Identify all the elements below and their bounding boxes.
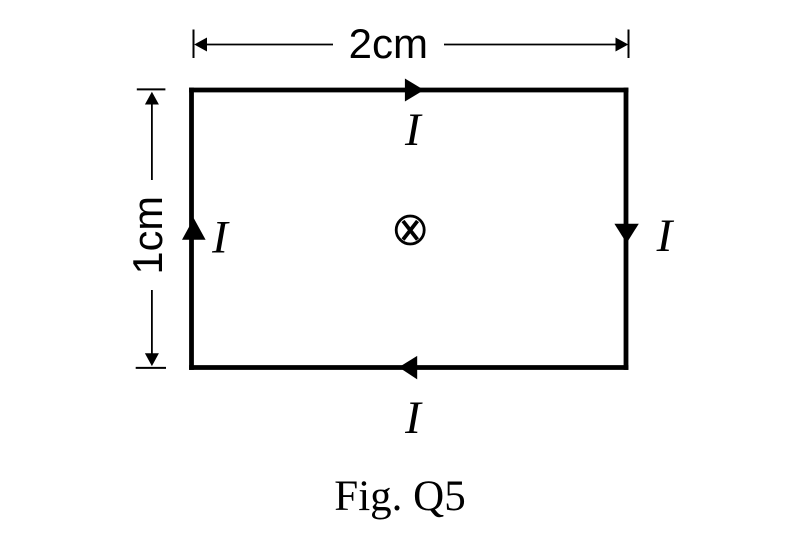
current arrow on left edge (pointing up) — [182, 218, 206, 239]
dimension arrowhead down (1cm) — [145, 353, 159, 366]
magnetic field into page symbol: X stroke 1 — [403, 221, 418, 240]
dimension extension tick left (top dimension 2cm) — [193, 30, 195, 59]
svg-text:I: I — [656, 210, 675, 262]
magnetic field into page symbol: circle — [396, 216, 424, 244]
magnetic field into page symbol: X stroke 2 — [403, 221, 418, 240]
svg-text:I: I — [211, 212, 230, 264]
wire right edge of loop — [624, 90, 629, 368]
current arrow on top edge (pointing right) — [405, 79, 424, 102]
current arrow on right edge (pointing down) — [614, 224, 638, 243]
dimension extension tick bottom (left dimension 1cm) — [136, 367, 166, 369]
dimension arrowhead up (1cm) — [145, 92, 159, 105]
dimension extension tick top (left dimension 1cm) — [137, 88, 166, 90]
dimension line left segment (2cm) — [206, 44, 333, 46]
svg-text:2cm: 2cm — [349, 20, 428, 67]
dimension arrowhead right (2cm) — [616, 38, 629, 52]
wire top edge of loop — [192, 88, 627, 93]
svg-text:Fig. Q5: Fig. Q5 — [334, 473, 465, 520]
dimension extension tick right (top dimension 2cm) — [628, 30, 630, 59]
svg-text:I: I — [404, 392, 423, 444]
current arrow on bottom edge (pointing left) — [399, 356, 417, 380]
dimension line upper segment (1cm) — [151, 104, 153, 180]
svg-text:I: I — [404, 104, 423, 156]
dimension line right segment (2cm) — [444, 44, 616, 46]
wire left edge of loop — [189, 90, 194, 368]
wire bottom edge of loop — [192, 365, 627, 370]
dimension arrowhead left (2cm) — [194, 38, 207, 52]
dimension line lower segment (1cm) — [151, 290, 153, 354]
svg-text:1cm: 1cm — [124, 196, 171, 274]
